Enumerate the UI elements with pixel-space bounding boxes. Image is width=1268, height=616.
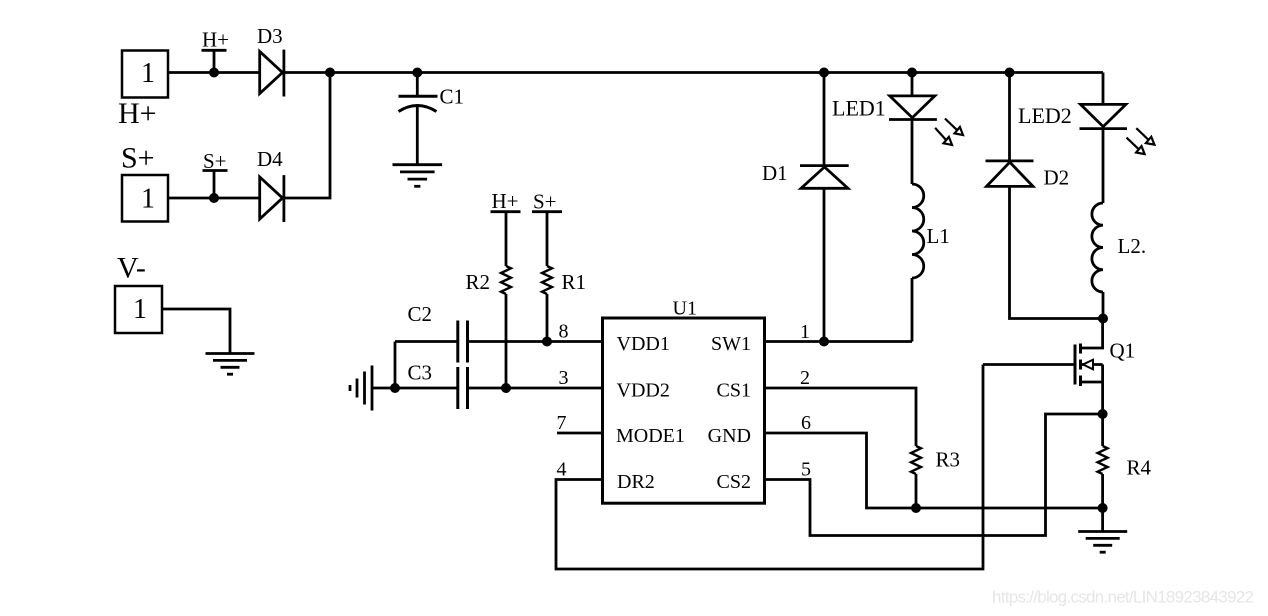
svg-text:LED1: LED1 xyxy=(832,96,886,121)
svg-text:6: 6 xyxy=(801,412,811,434)
svg-text:SW1: SW1 xyxy=(711,333,751,355)
svg-text:R3: R3 xyxy=(936,448,961,472)
svg-text:R1: R1 xyxy=(562,270,587,294)
svg-text:CS2: CS2 xyxy=(717,471,751,493)
svg-text:H+: H+ xyxy=(202,28,229,52)
svg-text:GND: GND xyxy=(708,425,751,447)
svg-text:S+: S+ xyxy=(533,190,557,214)
svg-text:VDD1: VDD1 xyxy=(617,333,670,355)
svg-text:S+: S+ xyxy=(203,149,227,173)
svg-text:L1: L1 xyxy=(927,224,950,248)
svg-text:D2: D2 xyxy=(1044,166,1070,190)
svg-text:R4: R4 xyxy=(1127,456,1152,480)
svg-text:V-: V- xyxy=(117,252,146,285)
svg-text:VDD2: VDD2 xyxy=(617,380,670,402)
svg-text:CS1: CS1 xyxy=(717,380,751,402)
svg-text:2: 2 xyxy=(800,367,810,389)
svg-text:R2: R2 xyxy=(466,270,491,294)
svg-text:Q1: Q1 xyxy=(1110,339,1136,363)
svg-text:MODE1: MODE1 xyxy=(616,425,685,447)
svg-text:https://blog.csdn.net/LIN18923: https://blog.csdn.net/LIN18923843922 xyxy=(992,588,1254,607)
svg-text:1: 1 xyxy=(141,58,155,89)
svg-text:C2: C2 xyxy=(408,302,433,326)
svg-text:D3: D3 xyxy=(257,24,283,48)
svg-text:U1: U1 xyxy=(673,298,697,320)
svg-text:C1: C1 xyxy=(440,85,465,109)
svg-text:H+: H+ xyxy=(118,97,157,130)
svg-text:DR2: DR2 xyxy=(617,471,655,493)
svg-text:D1: D1 xyxy=(762,161,788,185)
svg-text:D4: D4 xyxy=(257,147,283,171)
svg-text:H+: H+ xyxy=(492,189,519,213)
svg-text:C3: C3 xyxy=(408,361,433,385)
svg-text:1: 1 xyxy=(141,184,155,215)
svg-text:LED2: LED2 xyxy=(1018,103,1072,128)
svg-text:S+: S+ xyxy=(121,142,155,175)
svg-text:L2.: L2. xyxy=(1118,234,1147,258)
svg-text:3: 3 xyxy=(559,367,569,389)
svg-text:8: 8 xyxy=(559,321,569,343)
svg-text:1: 1 xyxy=(133,294,147,325)
svg-text:7: 7 xyxy=(557,412,567,434)
svg-text:5: 5 xyxy=(801,459,811,481)
svg-text:1: 1 xyxy=(800,321,810,343)
svg-text:4: 4 xyxy=(557,459,567,481)
